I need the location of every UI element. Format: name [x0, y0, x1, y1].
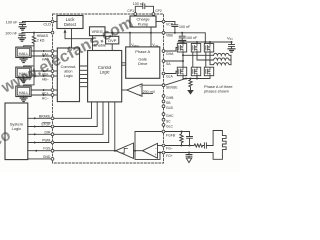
arrow HB+ [43, 70, 46, 72]
wire VCP external [165, 21, 175, 23]
svg-text:100 nF: 100 nF [179, 25, 191, 29]
svg-text:–: – [155, 146, 157, 150]
wire CLD net [23, 21, 52, 23]
wire charge pump to VCP pin [156, 21, 162, 23]
svg-text:SB: SB [166, 101, 171, 105]
junction FGFB on amp output [134, 150, 136, 152]
wire VCP tap to gate drive [150, 27, 152, 47]
wire DIR to control [54, 102, 103, 134]
chip boundary (dashed IC outline) [53, 14, 164, 163]
node phase B [197, 52, 214, 60]
capacitor C4 100 nF (VCP to VBB) [172, 22, 178, 33]
pin STOP [51, 125, 54, 128]
pin GHC [162, 113, 165, 116]
wire CP1 stub [134, 14, 136, 17]
svg-text:100 nF: 100 nF [133, 2, 145, 6]
ground (VBB cap) [179, 41, 186, 44]
arrow PWM [34, 141, 37, 143]
block System Logic [5, 103, 28, 160]
resistor R3 (FG feedback) [180, 132, 183, 146]
node phase C [210, 52, 214, 65]
svg-text:+: + [139, 85, 141, 89]
wire HB- into chip [54, 75, 57, 77]
transistor Q2 (high side B) [191, 44, 200, 53]
pin HB- [51, 75, 54, 78]
svg-text:GND: GND [43, 155, 51, 159]
svg-text:GHC: GHC [166, 114, 174, 118]
ground (FG+, power arrow) [186, 158, 192, 163]
capacitor C8 (FG series) [203, 143, 213, 148]
capacitor C6 (VIN bypass) [229, 42, 235, 49]
ground (HALL B) [20, 78, 27, 83]
wire BRAKE to control [54, 102, 92, 118]
svg-text:HALL: HALL [19, 51, 30, 56]
pin GHB [162, 95, 165, 98]
pin SENSE [162, 84, 165, 87]
svg-text:STOP: STOP [41, 123, 51, 127]
wire HBIAS net [22, 32, 51, 34]
pin GND [51, 158, 54, 161]
block Charge Pump [130, 16, 156, 27]
transistor Q5 (low side B) [191, 67, 200, 76]
wire SA [165, 60, 183, 62]
wire STOP [28, 126, 51, 128]
svg-text:SENSE: SENSE [166, 86, 178, 90]
wire CLD to Lock Detect [54, 21, 57, 23]
wire OVP to Control Logic [111, 44, 113, 51]
svg-text:GHA: GHA [166, 52, 174, 56]
wire drains to VIN rail [183, 42, 210, 44]
wire FGFB external [165, 131, 190, 133]
pin FGS [51, 149, 54, 152]
svg-text:FGS: FGS [43, 147, 51, 151]
arrow HC- [43, 94, 46, 96]
block OVP [106, 36, 119, 44]
transistor Q4 (low side A) [177, 67, 186, 76]
svg-text:200 mV: 200 mV [143, 90, 156, 94]
wire hall supply rail [24, 46, 34, 86]
svg-text:100 nF: 100 nF [5, 32, 18, 36]
pin GLA [162, 72, 165, 75]
svg-text:CLD: CLD [43, 23, 51, 27]
wire PWM to control [54, 102, 109, 143]
op-amp U5 current sense comparator [127, 84, 142, 97]
hall sensor U4 (HALL C) [16, 86, 31, 96]
wire HB- [31, 75, 51, 77]
transistor Q6 (low side C) [204, 67, 213, 76]
wire HA+ [31, 50, 51, 52]
pin HBIAS [51, 31, 54, 34]
junction HBIAS/R1 [33, 32, 35, 34]
svg-text:HC–: HC– [42, 96, 49, 100]
pin HA+ [51, 50, 54, 53]
block Control Logic [88, 51, 122, 102]
svg-text:GLC: GLC [166, 125, 174, 129]
svg-text:phases shown: phases shown [204, 88, 229, 93]
junction FG+ node [159, 152, 161, 154]
svg-text:VIN: VIN [227, 35, 232, 41]
svg-text:+: + [155, 153, 157, 157]
svg-text:CP1: CP1 [127, 9, 134, 13]
wire FG- external [165, 145, 194, 147]
ground (VIN cap) [228, 49, 235, 52]
wire HC- into chip [54, 94, 57, 96]
wire feedback loop to FG+ node [135, 151, 160, 160]
svg-text:HBIAS: HBIAS [37, 34, 49, 38]
FG pattern (motor comb) [213, 131, 226, 160]
arrow HA+ [43, 50, 46, 52]
wire gate tie C [205, 52, 207, 67]
wire SENSE external [165, 79, 186, 86]
svg-text:Drive: Drive [138, 61, 148, 66]
wire GHA to gate Q1 [165, 48, 177, 52]
wire star point [230, 55, 232, 64]
pin GHA [162, 50, 165, 53]
capacitor C3 100 nF (charge pump) [135, 4, 153, 13]
svg-text:–: – [139, 92, 141, 96]
arrow STOP [34, 125, 37, 127]
wire HA- [31, 55, 51, 57]
wire PWM [28, 142, 51, 144]
wire FGFB internal feedback [135, 132, 162, 151]
motor winding LC [214, 63, 232, 65]
capacitor C2 100 nF (HBIAS) [19, 33, 25, 38]
svg-text:VCP: VCP [166, 22, 174, 26]
wire CP2 stub [153, 14, 155, 17]
svg-text:BRAKE: BRAKE [39, 114, 51, 118]
pin VBB [162, 31, 165, 34]
wire HC- [31, 94, 51, 96]
wire comparator ref stub [142, 93, 153, 95]
svg-text:Phase A: Phase A [135, 49, 150, 54]
wire HB+ into chip [54, 70, 57, 72]
arrow HC+ [43, 89, 46, 91]
wire FG- input [158, 145, 163, 147]
svg-text:ation: ation [64, 70, 72, 74]
svg-text:DIR: DIR [45, 130, 51, 134]
wire BRAKE [28, 117, 51, 119]
transistor Q3 (high side C) [204, 44, 213, 53]
svg-text:GLB: GLB [166, 106, 174, 110]
block Commutation Logic [57, 48, 79, 102]
hall sensor U3 (HALL B) [16, 67, 31, 77]
wire schmitt input [134, 150, 143, 152]
wire FGS [28, 150, 51, 152]
wire GLA to gate Q4 [165, 71, 177, 73]
svg-text:100 nF: 100 nF [6, 21, 19, 25]
svg-text:Logic: Logic [64, 74, 73, 78]
wire HA+ into chip [54, 50, 57, 52]
ground (CLD cap) [19, 27, 26, 30]
svg-text:VBB: VBB [166, 34, 174, 38]
pin HB+ [51, 70, 54, 73]
pin FG+ [162, 151, 165, 154]
wire FGS to schmitt output / control [54, 102, 116, 152]
ground (HALL A) [20, 58, 27, 63]
wire HA- into chip [54, 55, 57, 57]
bus control to gate drive [122, 63, 126, 65]
pin SB [162, 100, 165, 103]
svg-text:Pump: Pump [138, 21, 149, 26]
wire HC+ [31, 89, 51, 91]
schmitt trigger U6 [116, 143, 134, 158]
pin SC [162, 118, 165, 121]
wire HC+ into chip [54, 89, 57, 91]
wire gate tie B [192, 52, 194, 67]
wire FG+ input [158, 152, 163, 154]
wire VREG to Lock Detect (enable net) [64, 29, 94, 51]
ground (HALL C) [20, 97, 27, 102]
block VREG [90, 27, 106, 36]
svg-text:PWM: PWM [42, 139, 50, 143]
pin FGFB [162, 130, 165, 133]
wire comparator output to control [122, 89, 127, 91]
pin DIR [51, 133, 54, 136]
svg-text:HC+: HC+ [42, 91, 49, 95]
pin GLB [162, 105, 165, 108]
block Lock Detect [57, 16, 83, 29]
node low side common source [183, 76, 210, 80]
svg-text:HALL: HALL [19, 90, 30, 95]
resistor R1 2 kOhm [32, 33, 35, 46]
pin FG- [162, 144, 165, 147]
svg-text:HB–: HB– [42, 78, 49, 82]
svg-text:SC: SC [166, 120, 171, 124]
pin GLC [162, 124, 165, 127]
arrow HA- [43, 55, 46, 57]
svg-text:100 nF: 100 nF [186, 36, 198, 40]
wire VREG tap to gate drive [129, 33, 131, 47]
pin HA- [51, 55, 54, 58]
wire HB+ [31, 70, 51, 72]
arrow HB- [43, 75, 46, 77]
capacitor C1 100 nF (CLD) [20, 22, 26, 27]
resistor R2 sense [189, 79, 192, 91]
svg-text:Logic: Logic [100, 70, 110, 75]
pin CP2 [152, 13, 155, 16]
svg-text:SA: SA [166, 62, 171, 66]
svg-text:GHB: GHB [166, 96, 174, 100]
transistor Q1 (high side A) [177, 42, 186, 52]
watermark www.elecfans.com [0, 14, 136, 165]
svg-text:Logic: Logic [12, 126, 22, 131]
wire OVP top [111, 33, 113, 37]
pin SA [162, 60, 165, 63]
svg-text:FG+: FG+ [166, 154, 173, 158]
wire FG+ external [165, 152, 213, 154]
pin CP1 [134, 13, 137, 16]
svg-text:CP2: CP2 [155, 9, 162, 13]
arrow BRAKE [34, 117, 37, 119]
capacitor C5 100 nF (VBB bypass) [179, 33, 185, 41]
pin CLD [51, 20, 54, 23]
pin PWM [51, 141, 54, 144]
capacitor C7 (FG feedback) [187, 132, 193, 146]
pin HC+ [51, 89, 54, 92]
node phase A [182, 52, 214, 67]
capacitor C9 (FG+ to gnd) [186, 153, 192, 159]
ground (sense, power arrow) [187, 90, 194, 95]
svg-text:FGFB: FGFB [166, 134, 176, 138]
wire SENSE internal [142, 84, 162, 86]
ground (HBIAS cap) [19, 38, 26, 41]
wire DIR [28, 133, 51, 135]
wire STOP to control [54, 102, 97, 127]
motor winding LB [214, 58, 232, 60]
pin HC- [51, 94, 54, 97]
hall sensor U2 (HALL A) [16, 47, 31, 57]
arrow DIR [34, 133, 37, 135]
wire VBB external [165, 32, 206, 43]
motor winding LA [214, 53, 232, 55]
svg-text:GLA: GLA [166, 75, 174, 79]
pin VCP [162, 20, 165, 23]
bus commutation to control (6 lines) [80, 66, 88, 87]
arrow FGS [34, 150, 37, 152]
wire GND [28, 158, 51, 160]
wire Lock Detect to Commutation Logic [71, 29, 73, 49]
wire VREG output / VBB rail [105, 32, 162, 34]
svg-text:2 kΩ: 2 kΩ [37, 39, 45, 43]
node VIN rail [178, 41, 233, 43]
op-amp U7 FG amplifier [143, 143, 158, 158]
svg-text:Detect: Detect [64, 22, 77, 27]
pin BRAKE [51, 117, 54, 120]
resistor R4 (FG series) [194, 144, 203, 147]
svg-text:FG–: FG– [166, 146, 173, 150]
block Phase A Gate Drive [126, 47, 160, 78]
